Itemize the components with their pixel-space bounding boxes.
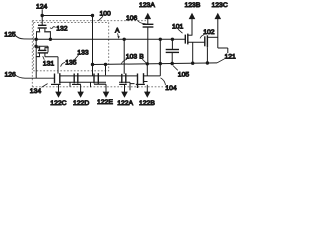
transistor 131 (36, 46, 58, 78)
label 101 (172, 24, 184, 34)
label 102 (200, 29, 215, 38)
svg-text:B: B (139, 54, 144, 61)
transistor 135b (gate 122D) (72, 73, 81, 92)
terminal 122C (50, 91, 66, 107)
svg-text:122A: 122A (117, 100, 133, 107)
svg-text:105: 105 (178, 72, 190, 79)
wire node A down to 103 (123, 39, 125, 74)
capacitor 106 (143, 24, 154, 64)
terminal 122E (97, 91, 113, 106)
gate drop b (90, 82, 92, 87)
wire rail B to t3 (105, 64, 107, 75)
junction cap105 top (171, 38, 174, 41)
node A rail (36, 38, 185, 40)
junction top-rail right (91, 14, 94, 17)
svg-text:122D: 122D (73, 100, 89, 107)
label 134 (30, 84, 48, 95)
junction B t3 feed (104, 63, 107, 66)
terminal 124 (36, 4, 48, 16)
inner dashed box 133 (34, 23, 109, 71)
svg-text:104: 104 (165, 85, 177, 92)
chain lower wire (60, 81, 130, 83)
svg-text:106: 106 (126, 15, 138, 22)
node B rail (93, 63, 218, 65)
wire rail A left stub down (35, 39, 37, 46)
transistor 101 (185, 34, 205, 64)
svg-text:123C: 123C (212, 2, 228, 9)
top rail wire (41, 15, 93, 17)
junction B t5 feed (146, 62, 149, 65)
gate drop a (69, 82, 71, 87)
svg-text:122E: 122E (97, 99, 113, 106)
junction gate line 131 (34, 45, 37, 48)
svg-text:126: 126 (5, 72, 17, 79)
junction node A (123, 38, 126, 41)
terminal 123B (185, 2, 201, 35)
svg-text:100: 100 (100, 11, 112, 18)
label 132 (50, 26, 68, 33)
svg-text:121: 121 (225, 54, 237, 61)
junction cap105 bottom (171, 62, 174, 65)
node A label (115, 28, 120, 39)
terminal 123C (212, 2, 228, 48)
terminal 122B (139, 91, 155, 107)
transistor t3 (gate 122E) (94, 73, 106, 92)
transistor 132 (36, 16, 51, 40)
svg-text:103: 103 (126, 54, 138, 61)
junction B top-rail drop (91, 63, 94, 66)
svg-text:131: 131 (43, 61, 55, 68)
svg-text:123B: 123B (185, 2, 201, 9)
capacitor 105 (166, 39, 179, 63)
label 131 (43, 56, 55, 67)
chain upper wire (60, 75, 160, 77)
junction 132 right foot (49, 38, 52, 41)
terminal 126 (5, 72, 55, 79)
circuit block 100 dashed box (32, 21, 163, 87)
label 103 (121, 54, 137, 64)
svg-text:133: 133 (77, 50, 89, 57)
svg-text:123A: 123A (139, 2, 155, 9)
junction under 124 (41, 14, 44, 17)
terminal 123A (139, 2, 155, 24)
transistor 103 (gate 122A) (119, 73, 127, 92)
terminal 122A (117, 91, 133, 107)
label 135 (61, 60, 77, 67)
label 105 (173, 66, 189, 79)
label 133 (75, 50, 89, 60)
wire gate line 131 to gate elbow (36, 46, 48, 52)
svg-text:122B: 122B (139, 100, 155, 107)
label 106 (126, 15, 146, 24)
label 104 (161, 78, 177, 92)
svg-text:125: 125 (4, 31, 16, 38)
terminal 121 (217, 54, 236, 63)
junction B chain-end riser (159, 62, 162, 65)
junction 102 source (206, 61, 209, 64)
svg-text:132: 132 (56, 26, 68, 33)
node B label (139, 54, 146, 64)
wire 131 drain stub (39, 46, 41, 50)
terminal 122D (73, 91, 89, 107)
label 100 (99, 11, 112, 21)
junction rail-A left (35, 38, 38, 41)
gate drop c (130, 82, 135, 90)
junction chain-end riser (159, 38, 162, 41)
terminal 125 (4, 31, 36, 39)
svg-text:102: 102 (203, 29, 215, 36)
wire 123C jog (218, 48, 228, 53)
transistor 104 (gate 122B) (136, 64, 148, 92)
transistor 134 (gate 122C) (51, 73, 61, 92)
svg-text:135: 135 (65, 60, 77, 67)
junction 101 source (191, 62, 194, 65)
wire chain end up to rail A (159, 39, 161, 76)
svg-text:122C: 122C (50, 100, 66, 107)
wire from top rail down through rails (92, 16, 94, 76)
transistor 102 (205, 35, 218, 63)
svg-text:134: 134 (30, 88, 42, 95)
